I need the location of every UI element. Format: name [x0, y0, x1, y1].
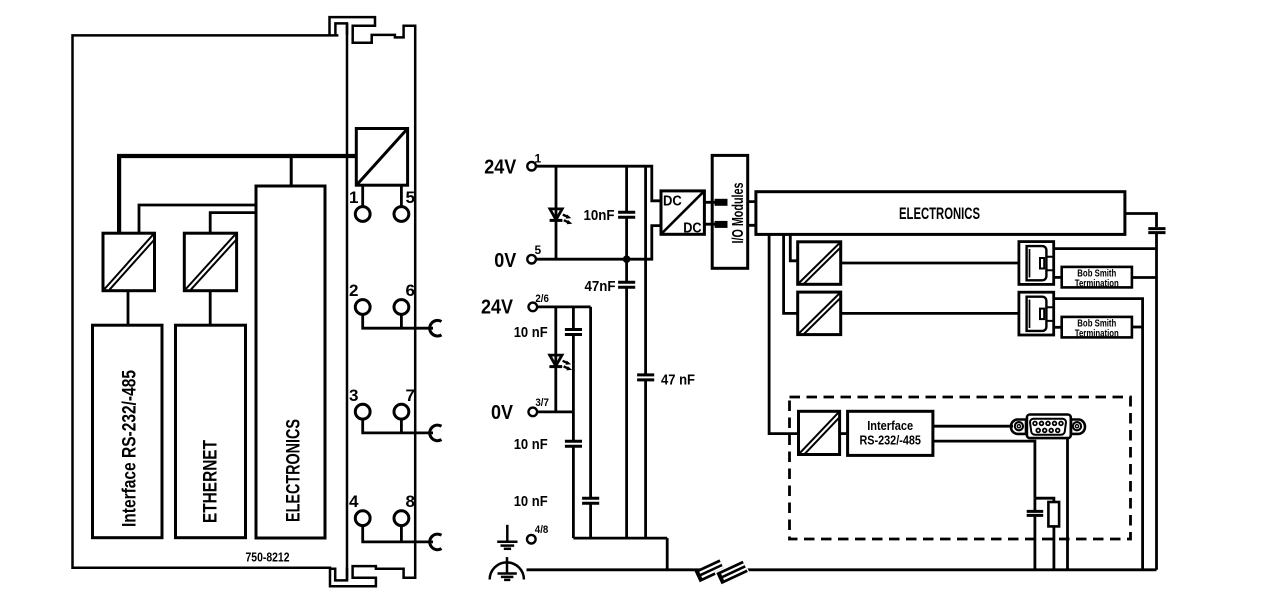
I/O Modules contact pin upper (black) [715, 199, 728, 206]
functional earth symbol at 4/8 [497, 525, 517, 549]
LED D2 symbol [549, 355, 572, 370]
wire 0V field rail [537, 410, 573, 413]
svg-text:2/6: 2/6 [535, 293, 549, 305]
capacitor C6 plates [565, 441, 582, 446]
wire U5 to RJ45 jack 2 [841, 312, 1019, 315]
housing inner contact rail vertical [346, 23, 349, 580]
row 4 wire to field clamp [363, 526, 433, 542]
wire U1 to Interface box [127, 291, 130, 326]
ELECTRONICS box (right) [756, 192, 1125, 235]
terminal row 1: stubs from power block [363, 185, 402, 206]
wire ELECTRONICS to ethernet isolation A [790, 234, 797, 260]
terminal 5 node circle [527, 255, 536, 264]
terminal row 2 circles 2 and 6 [355, 300, 370, 315]
svg-text:47 nF: 47 nF [661, 372, 695, 389]
svg-text:8: 8 [406, 492, 415, 511]
wires DC/DC to I/O modules [704, 202, 716, 224]
I/O Modules contact pin lower (black) [715, 221, 728, 228]
field ground bus [573, 537, 667, 540]
wire U2 to ELECTRONICS module [210, 213, 256, 234]
svg-text:Termination: Termination [1075, 328, 1119, 339]
wire DB9 shield to earth bus [1066, 438, 1069, 570]
wire U1 to ELECTRONICS module [139, 205, 256, 233]
svg-text:10 nF: 10 nF [514, 324, 548, 341]
svg-text:Termination: Termination [1075, 278, 1119, 289]
wire RJ45-1 to shield rail [1054, 247, 1157, 250]
controller module housing outline [73, 17, 416, 586]
wire U2 to ETHERNET box [209, 291, 212, 326]
isolation block U6 (serial) [799, 411, 840, 454]
box ELECTRONICS (module) [256, 186, 325, 538]
RJ45 jack 2 [1019, 292, 1054, 335]
Bob Smith Termination box 1 [1062, 267, 1132, 288]
shield clamp 3D symbol [695, 559, 750, 586]
row 3 cable clamp arc [430, 425, 442, 441]
svg-text:DC: DC [683, 220, 702, 236]
wire ELECTRONICS to serial isolation (long) [769, 234, 798, 433]
isolation block U2 (Ethernet isolation) [184, 233, 236, 291]
long vertical rail with C3 [644, 166, 647, 538]
Interface RS-232/-485 box [848, 411, 933, 455]
wire U6 to Interface box [840, 432, 848, 435]
isolation block U1 (RS-232 isolation) [103, 233, 155, 291]
RJ45 jack 1 [1019, 242, 1054, 285]
vertical shield rail right [1155, 233, 1158, 570]
capacitor C2 plates [618, 282, 635, 287]
wire 24V field rail [537, 305, 591, 308]
svg-text:10nF: 10nF [584, 207, 615, 224]
svg-text:ETHERNET: ETHERNET [201, 440, 222, 523]
power feed block (square with diagonal) on terminal side [356, 129, 407, 186]
terminal 1 node circle [527, 162, 536, 171]
wire 0V rail to DC/DC [536, 226, 661, 260]
earth/shield bus [527, 568, 1157, 571]
svg-text:RS-232/-485: RS-232/-485 [859, 433, 921, 447]
svg-text:3: 3 [349, 386, 358, 405]
svg-text:3/7: 3/7 [535, 397, 549, 409]
wire ELECTRONICS to ethernet isolation B [784, 234, 798, 313]
svg-text:I/O Modules: I/O Modules [730, 182, 747, 243]
svg-text:ELECTRONICS: ELECTRONICS [899, 205, 980, 223]
wire R1 to earth bus [1053, 526, 1056, 569]
capacitor C6 10nF branch lower [572, 412, 575, 538]
wire 24V supply thick (module top feed) [119, 156, 356, 233]
svg-text:24V: 24V [484, 157, 517, 179]
capacitor C8 plates [1027, 511, 1044, 515]
wire BST2 to second shield drop [1132, 326, 1143, 329]
svg-text:10 nF: 10 nF [514, 436, 548, 453]
svg-text:2: 2 [349, 281, 358, 300]
capacitor C5 plates [565, 330, 582, 335]
wire BST1 to shield rail [1132, 276, 1157, 279]
terminal row 3 circles 3 and 7 [355, 404, 370, 419]
row 2 cable clamp arc [430, 320, 442, 336]
svg-text:0V: 0V [491, 402, 514, 424]
wire RJ45-2 to BST2 [1054, 326, 1062, 329]
chassis earth symbol [490, 557, 524, 580]
svg-text:DC: DC [663, 193, 682, 209]
svg-text:7: 7 [406, 386, 415, 405]
wire Interface to RC network [933, 441, 1035, 498]
terminal 5 circle [394, 207, 409, 222]
capacitor C7 plates [582, 498, 599, 503]
isolation block U5 (ETHERNET port 2) [798, 292, 841, 335]
wire U4 to RJ45 jack 1 [841, 262, 1019, 265]
junction dot 0V rail [623, 255, 631, 263]
capacitor C1 10nF branch [625, 166, 628, 259]
DB9 connector [1011, 415, 1085, 439]
svg-text:750-8212: 750-8212 [246, 550, 290, 565]
svg-text:ELECTRONICS: ELECTRONICS [284, 419, 305, 522]
terminal row 4 circles 4 and 8 [355, 511, 370, 526]
capacitor C4 plates (shield) [1148, 229, 1165, 233]
svg-text:0V: 0V [494, 250, 517, 272]
svg-text:24V: 24V [481, 297, 514, 319]
wire Interface to DB9 [933, 425, 1013, 428]
capacitor C1 plates [618, 212, 635, 217]
svg-text:Interface RS-232/-485: Interface RS-232/-485 [120, 370, 141, 527]
capacitor C8 branch [1034, 498, 1037, 570]
I/O Modules box [712, 155, 748, 268]
box Interface RS-232/-485 [93, 325, 163, 538]
vertical branch with C7 [589, 307, 592, 538]
isolation block U4 (ETHERNET port 1) [798, 242, 841, 284]
wire 24V rail to DC/DC [536, 166, 661, 201]
svg-text:4: 4 [349, 492, 359, 511]
wire RJ45-1 to BST1 [1054, 276, 1062, 279]
row 3 wire to field clamp [363, 419, 433, 433]
wire RC tee [1035, 498, 1054, 502]
svg-text:Interface: Interface [867, 419, 913, 433]
capacitor C3 plates [637, 375, 654, 380]
wire RJ45-2 to second shield drop [1054, 299, 1143, 570]
box ETHERNET [176, 325, 246, 538]
svg-text:4/8: 4/8 [535, 524, 549, 536]
dashed service interface enclosure [790, 397, 1131, 539]
row 2 wire to field clamp [363, 314, 433, 328]
terminal 3/7 node circle [529, 408, 538, 417]
svg-text:1: 1 [349, 188, 358, 207]
svg-text:10 nF: 10 nF [514, 493, 548, 510]
svg-text:5: 5 [406, 188, 415, 207]
DC/DC converter U3 [661, 191, 704, 234]
svg-text:5: 5 [535, 243, 542, 257]
wires I/O modules to ELECTRONICS [748, 202, 756, 226]
capacitor C2 47nF branch [625, 259, 628, 538]
svg-text:6: 6 [406, 281, 415, 300]
LED D1 symbol [550, 209, 573, 224]
svg-text:1: 1 [535, 151, 542, 165]
wire bus to earth bus [666, 538, 669, 570]
row 4 cable clamp arc [430, 534, 442, 550]
Bob Smith Termination box 2 [1062, 317, 1132, 338]
LED D1 branch wire [555, 166, 558, 259]
housing top mounting hook [335, 23, 347, 35]
svg-text:47nF: 47nF [585, 278, 616, 295]
terminal 2/6 node circle [529, 303, 538, 312]
LED D2 branch wire [554, 307, 557, 412]
housing bottom mounting hook [330, 568, 347, 580]
wire ELECTRONICS right to shield cap [1125, 214, 1157, 228]
terminal 4/8 node circle [527, 535, 536, 544]
capacitor C5 10nF branch upper [572, 307, 575, 412]
terminal 1 circle [355, 207, 370, 222]
resistor R1 [1048, 502, 1059, 526]
wire junction feed to ELECTRONICS module top [290, 158, 293, 186]
